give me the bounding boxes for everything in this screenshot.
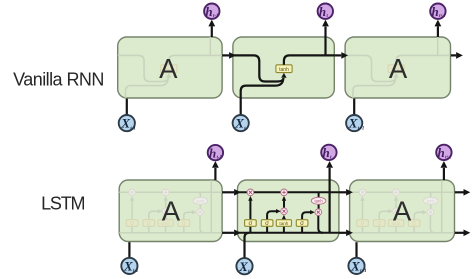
svg-text:t+1: t+1 xyxy=(358,126,364,131)
svg-text:t-1: t-1 xyxy=(133,269,138,274)
svg-text:tanh: tanh xyxy=(315,199,324,204)
svg-text:LSTM: LSTM xyxy=(41,193,84,213)
svg-text:h: h xyxy=(319,4,326,19)
svg-text:t-1: t-1 xyxy=(217,156,222,161)
svg-text:X: X xyxy=(123,259,133,274)
svg-text:tanh: tanh xyxy=(279,67,289,73)
svg-text:X: X xyxy=(350,259,360,274)
svg-text:A: A xyxy=(162,195,181,226)
svg-text:h: h xyxy=(432,4,439,19)
svg-text:σ: σ xyxy=(265,220,269,227)
svg-text:t+1: t+1 xyxy=(360,269,366,274)
svg-text:X: X xyxy=(120,116,130,131)
svg-text:h: h xyxy=(323,145,330,160)
svg-text:t-1: t-1 xyxy=(130,126,135,131)
svg-text:σ: σ xyxy=(377,220,381,227)
svg-text:h: h xyxy=(438,145,445,160)
svg-text:σ: σ xyxy=(300,220,304,227)
svg-text:A: A xyxy=(389,53,408,84)
svg-text:h: h xyxy=(205,4,212,19)
svg-text:X: X xyxy=(348,116,358,131)
svg-text:σ: σ xyxy=(130,220,134,227)
svg-text:tanh: tanh xyxy=(427,199,436,204)
svg-text:t+1: t+1 xyxy=(445,155,451,160)
svg-text:t-1: t-1 xyxy=(213,14,218,19)
svg-text:σ: σ xyxy=(412,220,416,227)
svg-text:X: X xyxy=(238,259,248,274)
svg-text:A: A xyxy=(393,195,412,226)
svg-text:t+1: t+1 xyxy=(439,14,445,19)
svg-text:σ: σ xyxy=(182,220,186,227)
svg-text:tanh: tanh xyxy=(196,199,205,204)
svg-text:A: A xyxy=(159,53,178,84)
svg-text:σ: σ xyxy=(147,220,151,227)
svg-text:tanh: tanh xyxy=(279,221,288,226)
svg-text:Vanilla RNN: Vanilla RNN xyxy=(13,69,104,89)
svg-text:X: X xyxy=(234,116,244,131)
svg-text:h: h xyxy=(209,145,216,160)
svg-text:σ: σ xyxy=(248,220,252,227)
svg-text:σ: σ xyxy=(361,220,365,227)
